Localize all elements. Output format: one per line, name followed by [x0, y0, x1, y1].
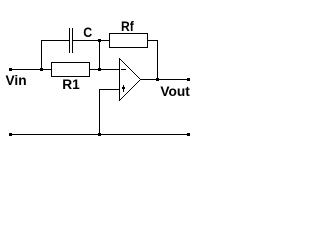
svg-text:R1: R1: [62, 77, 80, 92]
svg-text:Rf: Rf: [121, 18, 134, 34]
svg-text:Vin: Vin: [6, 73, 27, 88]
svg-text:Vout: Vout: [160, 84, 190, 99]
svg-text:C: C: [83, 24, 92, 40]
